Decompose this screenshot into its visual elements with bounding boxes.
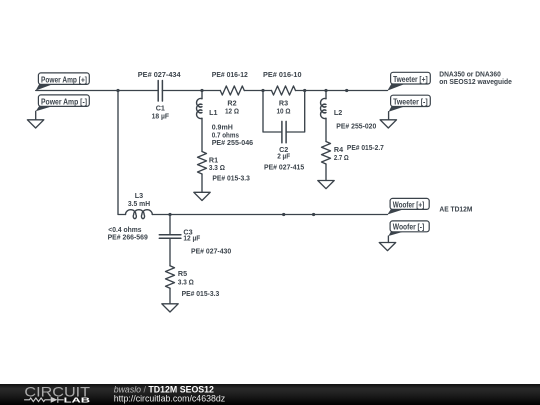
svg-text:http://circuitlab.com/c4638dz: http://circuitlab.com/c4638dz — [114, 393, 225, 403]
svg-text:3.5 mH: 3.5 mH — [128, 199, 150, 208]
svg-text:PE# 015-3.3: PE# 015-3.3 — [182, 289, 220, 298]
svg-text:L1: L1 — [209, 108, 217, 117]
svg-text:PE# 255-020: PE# 255-020 — [336, 122, 376, 131]
svg-text:PE# 015-2.7: PE# 015-2.7 — [347, 143, 384, 152]
svg-text:Tweeter [-]: Tweeter [-] — [393, 96, 428, 106]
svg-text:Woofer [-]: Woofer [-] — [393, 222, 425, 232]
svg-text:Woofer [+]: Woofer [+] — [393, 199, 425, 209]
svg-text:Tweeter [+]: Tweeter [+] — [393, 74, 428, 84]
svg-text:PE# 255-046: PE# 255-046 — [212, 138, 253, 147]
svg-text:PE# 016-12: PE# 016-12 — [212, 70, 248, 79]
svg-text:3.3 Ω: 3.3 Ω — [209, 163, 225, 172]
svg-text:3.3 Ω: 3.3 Ω — [178, 277, 194, 286]
svg-text:Power Amp [-]: Power Amp [-] — [41, 96, 87, 106]
svg-text:2 µF: 2 µF — [277, 152, 291, 161]
svg-text:PE# 015-3.3: PE# 015-3.3 — [212, 174, 250, 183]
svg-text:10 Ω: 10 Ω — [277, 107, 291, 116]
svg-text:12 Ω: 12 Ω — [225, 107, 239, 116]
svg-text:PE# 016-10: PE# 016-10 — [263, 70, 302, 79]
svg-text:AE TD12M: AE TD12M — [439, 205, 472, 214]
svg-text:PE# 027-430: PE# 027-430 — [191, 246, 231, 255]
svg-text:Power Amp [+]: Power Amp [+] — [41, 74, 87, 84]
svg-text:LAB: LAB — [64, 396, 91, 405]
svg-text:L2: L2 — [334, 108, 342, 117]
svg-text:PE# 027-434: PE# 027-434 — [138, 70, 181, 79]
svg-text:on SEOS12 waveguide: on SEOS12 waveguide — [439, 77, 512, 86]
svg-text:PE# 266-569: PE# 266-569 — [108, 232, 148, 241]
svg-text:PE# 027-415: PE# 027-415 — [264, 162, 304, 171]
svg-text:18 µF: 18 µF — [152, 112, 170, 121]
svg-text:2.7 Ω: 2.7 Ω — [334, 153, 349, 162]
svg-text:12 µF: 12 µF — [183, 233, 200, 242]
